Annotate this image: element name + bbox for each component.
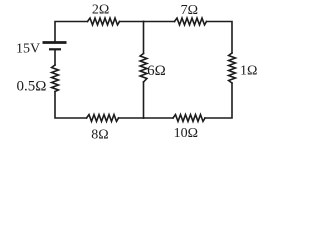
svg-text:1Ω: 1Ω <box>240 63 257 78</box>
svg-text:7Ω: 7Ω <box>181 3 198 18</box>
svg-text:15V: 15V <box>16 42 40 57</box>
wire 2Ω to node A <box>120 21 144 23</box>
svg-text:0.5Ω: 0.5Ω <box>16 78 46 94</box>
resistor R6 6Ω <box>140 54 147 83</box>
resistor R10 10Ω <box>173 115 205 122</box>
battery V1 15V short plate <box>49 48 61 50</box>
resistor R2 2Ω <box>88 18 120 25</box>
resistor R7 7Ω <box>175 18 207 25</box>
wire node A to 6Ω <box>143 22 145 54</box>
battery V1 15V long plate <box>43 41 67 44</box>
resistor R8 8Ω <box>87 115 119 122</box>
wire node A to 7Ω <box>144 21 175 23</box>
wire top-left corner to 2Ω <box>55 22 88 42</box>
wire 8Ω to bottom-left corner <box>55 92 87 119</box>
wire 10Ω to node B <box>144 117 174 119</box>
svg-text:10Ω: 10Ω <box>174 126 198 141</box>
svg-text:6Ω: 6Ω <box>147 63 166 79</box>
wire 6Ω to node B <box>143 82 145 118</box>
wire battery to 0.5Ω <box>54 51 56 66</box>
wire 1Ω to bottom-right corner <box>205 83 232 118</box>
resistor R0.5 0.5Ω <box>52 65 59 92</box>
wire node B to 8Ω <box>119 117 144 119</box>
wire 7Ω to top-right corner <box>207 22 233 54</box>
resistor R1 1Ω <box>229 53 236 83</box>
svg-text:8Ω: 8Ω <box>91 127 108 141</box>
svg-text:2Ω: 2Ω <box>92 2 109 17</box>
